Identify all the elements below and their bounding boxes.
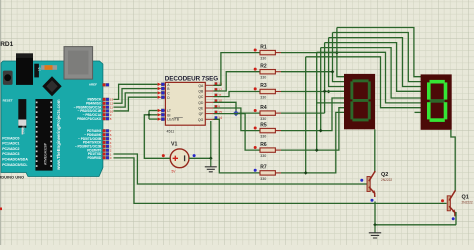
svg-text:2N2222: 2N2222 bbox=[381, 178, 392, 182]
wire PD1 to Q2 base bbox=[114, 154, 367, 184]
wire R2 to node bbox=[281, 71, 333, 73]
svg-text:330: 330 bbox=[260, 135, 266, 139]
junction R1 net bbox=[335, 51, 339, 55]
svg-text:330: 330 bbox=[260, 57, 266, 61]
svg-text:QF: QF bbox=[199, 112, 204, 116]
junction R6 net bbox=[315, 148, 319, 152]
svg-text:PC1/ADC1: PC1/ADC1 bbox=[2, 142, 19, 146]
Arduino pin state indicators and pin numbers bbox=[103, 83, 114, 160]
wire PB3 to decoder input C bbox=[114, 93, 158, 107]
wire display1 common to Q2 collector bbox=[374, 129, 376, 172]
wire node to display2 pin G bbox=[306, 57, 421, 108]
Arduino Uno board ARD1 bbox=[1, 47, 103, 177]
svg-text:QG: QG bbox=[198, 118, 204, 122]
wire ground rail bbox=[375, 224, 456, 226]
svg-text:QE: QE bbox=[198, 107, 204, 111]
resistor R6 330 bbox=[254, 142, 281, 158]
wire Q1 emitter to ground rail bbox=[455, 212, 457, 225]
svg-text:PC5/ADC5/SCL: PC5/ADC5/SCL bbox=[2, 163, 28, 167]
wire to LE bbox=[149, 118, 158, 120]
svg-text:R4: R4 bbox=[260, 105, 267, 111]
svg-text:Q2: Q2 bbox=[381, 172, 388, 178]
svg-text:R5: R5 bbox=[260, 122, 267, 128]
svg-text:PC0/ADC0: PC0/ADC0 bbox=[2, 136, 19, 140]
resistor R2 330 bbox=[254, 63, 281, 79]
svg-text:R2: R2 bbox=[260, 63, 267, 69]
svg-text:www.TheEngineeringProjects.com: www.TheEngineeringProjects.com bbox=[56, 99, 61, 171]
svg-text:PC2/ADC2: PC2/ADC2 bbox=[2, 147, 19, 151]
wire QA to R1 bbox=[214, 53, 261, 86]
svg-text:DECODEUR 7SEG: DECODEUR 7SEG bbox=[165, 75, 218, 82]
junction QD/QF crossing node bbox=[233, 110, 239, 116]
junction R7 net bbox=[304, 171, 308, 175]
transistor Q2 2N2222 bbox=[360, 171, 392, 202]
svg-text:R7: R7 bbox=[260, 165, 267, 171]
wire display2 pin DP stub bbox=[415, 111, 422, 113]
svg-text:QC: QC bbox=[198, 95, 204, 99]
wire node to display2 pin B bbox=[333, 33, 422, 82]
wire R6 to display1 pin F bbox=[281, 108, 344, 150]
resistor R4 330 bbox=[254, 105, 281, 121]
svg-text:PD0/RXD: PD0/RXD bbox=[87, 156, 102, 160]
wire R7 to display1 pin DP bbox=[281, 112, 344, 172]
decoder U1 4511 DECODEUR 7SEG bbox=[158, 75, 222, 133]
wire to LT bbox=[149, 110, 158, 112]
ground (transistors) bbox=[369, 225, 381, 238]
wire QD to R4 bbox=[214, 102, 261, 113]
wire R1 to node bbox=[281, 52, 337, 54]
wire V1 minus to ground node bbox=[189, 157, 211, 159]
svg-text:330: 330 bbox=[260, 76, 266, 80]
7-segment display D1 (digit 8, off) bbox=[344, 74, 375, 129]
wire node to display2 pin D bbox=[325, 43, 422, 92]
junction R3 net bbox=[327, 90, 331, 94]
wire PD0 to Q1 base bbox=[114, 158, 447, 204]
wire display2 common to Q1 collector bbox=[451, 130, 455, 192]
wire V1 plus to BI bbox=[144, 115, 170, 159]
svg-text:R3: R3 bbox=[260, 83, 267, 89]
svg-text:330: 330 bbox=[260, 117, 266, 121]
junction BI node bbox=[147, 113, 150, 116]
wire PB5 to decoder input A bbox=[114, 84, 158, 99]
battery V1 5V bbox=[170, 142, 189, 174]
wire node to display1 pin G bbox=[317, 102, 345, 104]
junction V1 ground node bbox=[209, 156, 213, 160]
ground (V1) bbox=[205, 158, 217, 172]
svg-text:ARD1: ARD1 bbox=[0, 41, 14, 48]
svg-text:QA: QA bbox=[198, 84, 204, 88]
node V1 minus indicator bbox=[193, 154, 196, 157]
wire PB2 to decoder input D bbox=[114, 97, 158, 111]
wire QC to R3 bbox=[214, 92, 261, 97]
svg-text:330: 330 bbox=[260, 154, 266, 158]
wire node to display1 pin A bbox=[337, 28, 344, 77]
stray pin mark bbox=[0, 208, 2, 211]
resistor R1 330 bbox=[254, 44, 281, 60]
wire PB4 to decoder input B bbox=[114, 89, 158, 104]
wire node to display2 pin C bbox=[329, 38, 422, 87]
svg-text:PB0/ICP1/CLKO: PB0/ICP1/CLKO bbox=[77, 117, 102, 121]
wire R3 to node bbox=[281, 91, 329, 93]
wire node to display2 pin A bbox=[337, 28, 421, 77]
junction R5 net bbox=[319, 129, 323, 133]
wire R7 riser bbox=[305, 57, 307, 173]
wire R6 riser bbox=[316, 52, 318, 150]
7-segment display D2 (digit 0, lit) bbox=[421, 74, 452, 129]
wire node to display1 pin D bbox=[325, 90, 345, 92]
svg-text:V1: V1 bbox=[171, 142, 177, 148]
svg-text:QB: QB bbox=[198, 90, 204, 94]
resistor R3 330 bbox=[254, 83, 281, 99]
svg-text:PC3/ADC3: PC3/ADC3 bbox=[2, 152, 19, 156]
wire node to display1 pin B bbox=[333, 33, 345, 82]
svg-text:ATMEGA328P: ATMEGA328P bbox=[44, 142, 48, 165]
wire R5 riser bbox=[320, 48, 322, 131]
junction ground rail bbox=[373, 223, 377, 227]
wire QF to R6 bbox=[214, 114, 261, 151]
junction R2 net bbox=[331, 70, 335, 74]
wire R4 riser bbox=[324, 43, 326, 114]
svg-text:PC4/ADC4/SDA: PC4/ADC4/SDA bbox=[2, 158, 28, 162]
wire LT/BI/LE tie bbox=[148, 111, 150, 120]
svg-text:2N2222: 2N2222 bbox=[462, 201, 473, 205]
svg-text:330: 330 bbox=[260, 177, 266, 181]
wire QB to R2 bbox=[214, 72, 261, 91]
node V1 plus indicator bbox=[162, 154, 165, 157]
wire R4 to node bbox=[281, 112, 325, 114]
wire ground node riser to decoder bbox=[210, 121, 212, 158]
svg-text:ARDUINO UNO: ARDUINO UNO bbox=[0, 175, 24, 180]
wire QG to R7 bbox=[214, 119, 261, 173]
svg-text:16: 16 bbox=[37, 67, 41, 71]
wire node to display2 pin F bbox=[317, 52, 421, 103]
transistor Q1 2N2222 bbox=[441, 190, 473, 220]
wire QE to R5 bbox=[214, 108, 261, 131]
resistor R5 330 bbox=[254, 122, 281, 138]
svg-text:QD: QD bbox=[198, 101, 204, 105]
svg-text:1N4007: 1N4007 bbox=[22, 123, 26, 134]
svg-text:Q1: Q1 bbox=[462, 194, 469, 200]
svg-text:4511: 4511 bbox=[167, 130, 175, 134]
wire node to display1 pin C bbox=[329, 38, 345, 87]
resistor R7 330 bbox=[254, 165, 281, 181]
wire R5 to display1 pin E bbox=[281, 98, 344, 131]
svg-text:R1: R1 bbox=[260, 44, 267, 50]
svg-text:RESET: RESET bbox=[3, 99, 13, 103]
svg-text:330: 330 bbox=[260, 96, 266, 100]
svg-text:R6: R6 bbox=[260, 142, 267, 148]
wire node to display2 pin E bbox=[321, 48, 421, 98]
Arduino digital pin labels PB5-PB0, PD7-PD0 bbox=[74, 98, 102, 160]
junction R4 net bbox=[323, 89, 327, 93]
svg-text:AREF: AREF bbox=[89, 83, 97, 87]
svg-text:LE/STB: LE/STB bbox=[167, 118, 179, 122]
wire Q2 emitter to ground rail bbox=[374, 202, 376, 225]
